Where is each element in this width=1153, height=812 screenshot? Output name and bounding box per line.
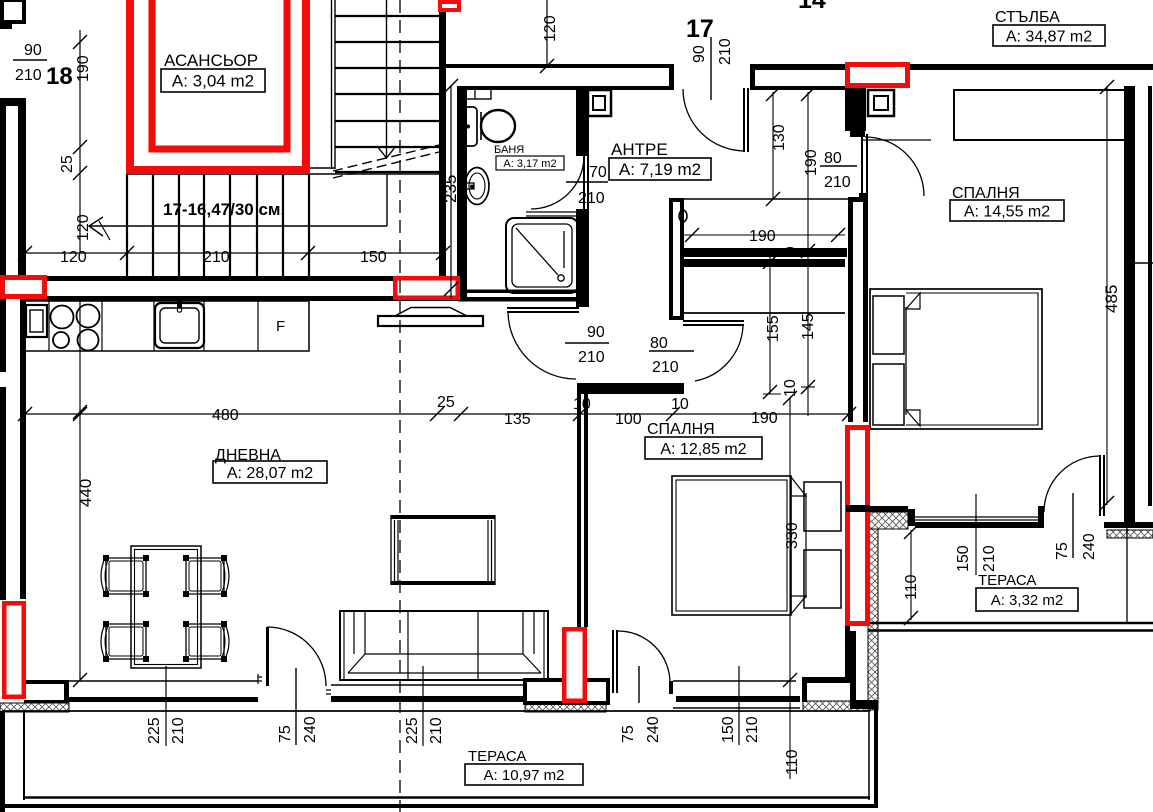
svg-text:A: 28,07 m2: A: 28,07 m2: [227, 465, 313, 482]
svg-text:240: 240: [1081, 533, 1098, 560]
svg-text:210: 210: [652, 359, 679, 376]
svg-text:210: 210: [981, 545, 998, 572]
svg-text:120: 120: [542, 15, 559, 42]
svg-text:235: 235: [441, 175, 460, 203]
svg-text:145: 145: [800, 313, 817, 340]
svg-text:225: 225: [404, 717, 421, 744]
svg-text:120: 120: [60, 249, 87, 266]
svg-text:A: 14,55 m2: A: 14,55 m2: [964, 203, 1050, 220]
svg-text:100: 100: [615, 411, 642, 428]
svg-text:110: 110: [903, 574, 920, 600]
svg-text:90: 90: [691, 45, 708, 63]
svg-text:АНТРЕ: АНТРЕ: [611, 140, 668, 159]
svg-text:330: 330: [784, 522, 801, 549]
svg-text:80: 80: [824, 150, 842, 167]
svg-text:210: 210: [428, 717, 445, 744]
svg-text:75: 75: [1054, 542, 1071, 560]
svg-text:ТЕРАСА: ТЕРАСА: [978, 572, 1036, 589]
svg-text:A: 3,17 m2: A: 3,17 m2: [503, 158, 556, 170]
svg-text:210: 210: [717, 38, 734, 65]
svg-text:110: 110: [784, 749, 801, 775]
svg-text:70: 70: [589, 164, 607, 181]
svg-text:190: 190: [75, 55, 92, 82]
svg-text:130: 130: [771, 124, 788, 151]
svg-text:A: 34,87 m2: A: 34,87 m2: [1006, 28, 1092, 45]
svg-text:210: 210: [578, 190, 605, 207]
svg-text:225: 225: [146, 717, 163, 744]
svg-text:240: 240: [302, 716, 319, 743]
svg-text:135: 135: [504, 411, 531, 428]
svg-text:210: 210: [170, 717, 187, 744]
svg-text:10: 10: [782, 379, 799, 397]
svg-text:18: 18: [46, 63, 73, 90]
svg-text:10: 10: [573, 396, 591, 413]
svg-text:210: 210: [744, 716, 761, 743]
svg-text:F: F: [276, 318, 285, 335]
svg-text:120: 120: [75, 214, 92, 241]
svg-text:240: 240: [645, 716, 662, 743]
svg-text:155: 155: [765, 315, 782, 342]
svg-text:25: 25: [437, 394, 455, 411]
svg-text:150: 150: [360, 249, 387, 266]
svg-text:17: 17: [686, 15, 714, 43]
svg-text:25: 25: [59, 155, 76, 173]
svg-text:A: 3,04 m2: A: 3,04 m2: [172, 72, 254, 91]
svg-text:150: 150: [720, 716, 737, 743]
svg-text:СПАЛНЯ: СПАЛНЯ: [647, 421, 715, 438]
svg-text:440: 440: [76, 479, 95, 507]
svg-text:480: 480: [212, 407, 239, 424]
svg-text:A: 10,97 m2: A: 10,97 m2: [484, 767, 565, 784]
svg-text:БАНЯ: БАНЯ: [494, 144, 524, 156]
svg-text:190: 190: [803, 149, 820, 176]
svg-text:СТЪЛБА: СТЪЛБА: [995, 9, 1060, 26]
svg-text:АСАНСЬОР: АСАНСЬОР: [164, 51, 258, 70]
svg-text:210: 210: [15, 67, 42, 84]
svg-text:A: 3,32 m2: A: 3,32 m2: [991, 592, 1064, 609]
svg-text:17-16,47/30 см.: 17-16,47/30 см.: [163, 200, 285, 219]
svg-text:10: 10: [671, 396, 689, 413]
svg-text:210: 210: [824, 174, 851, 191]
svg-text:190: 190: [749, 228, 776, 245]
svg-text:75: 75: [277, 725, 294, 743]
svg-text:A: 12,85 m2: A: 12,85 m2: [660, 441, 746, 458]
svg-text:90: 90: [24, 42, 42, 59]
svg-text:14: 14: [798, 0, 826, 14]
svg-text:190: 190: [751, 410, 778, 427]
svg-text:210: 210: [578, 349, 605, 366]
svg-text:A: 7,19 m2: A: 7,19 m2: [619, 160, 701, 179]
svg-text:75: 75: [620, 725, 637, 743]
svg-text:80: 80: [650, 335, 668, 352]
svg-text:ТЕРАСА: ТЕРАСА: [468, 748, 526, 765]
svg-text:150: 150: [955, 545, 972, 572]
svg-text:210: 210: [203, 249, 230, 266]
svg-text:485: 485: [1102, 285, 1121, 313]
svg-text:90: 90: [587, 324, 605, 341]
